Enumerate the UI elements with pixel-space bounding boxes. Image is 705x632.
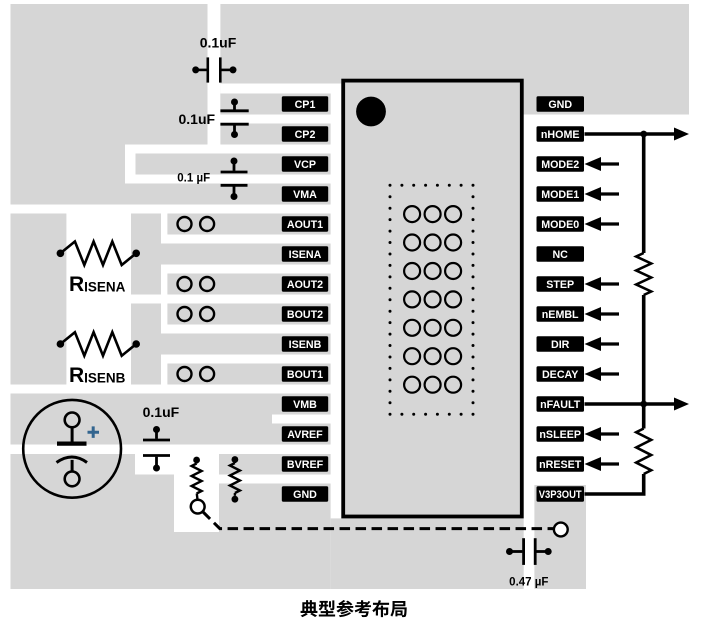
copper trace row VMA <box>11 184 331 205</box>
copper trace row GND-left and below <box>219 484 331 590</box>
copper trace row BVREF <box>219 454 331 475</box>
via pair on AOUT1 trace <box>178 217 215 231</box>
resistor R_ISENA <box>57 242 140 266</box>
pin label box CP2 (left) <box>282 126 328 142</box>
svg-text:MODE1: MODE1 <box>541 189 579 201</box>
pin label box AOUT2 (left) <box>282 276 328 292</box>
copper column ISENA net <box>131 214 161 295</box>
arrow into nSLEEP <box>585 427 620 441</box>
svg-text:0.47 µF: 0.47 µF <box>509 577 548 589</box>
svg-text:MODE2: MODE2 <box>541 159 579 171</box>
copper column ISENB net <box>131 304 161 385</box>
copper pour top-left block <box>11 4 208 145</box>
svg-text:nEMBL: nEMBL <box>542 309 579 321</box>
copper trace row VCP <box>136 154 331 175</box>
pin label box MODE0 (right) <box>537 216 585 232</box>
resistor R_ISENB <box>57 332 140 356</box>
svg-text:NC: NC <box>552 249 568 261</box>
pin label box nEMBL (right) <box>537 306 585 322</box>
svg-text:nSLEEP: nSLEEP <box>539 429 581 441</box>
pull resistor R4 <box>230 460 240 496</box>
svg-text:GND: GND <box>548 99 572 111</box>
copper pour left below channel <box>11 145 126 205</box>
via pair on BOUT2 trace <box>178 307 215 321</box>
capacitor C3 0.1uF (VCP/VMA) <box>221 158 248 201</box>
svg-text:BOUT2: BOUT2 <box>287 309 323 321</box>
arrow into MODE2 <box>585 157 620 171</box>
pin label box V3P3OUT (right) <box>537 486 585 502</box>
bus wire vertical (right) <box>585 134 644 494</box>
voltage source VM <box>23 400 121 498</box>
svg-text:DIR: DIR <box>551 339 570 351</box>
pin label box STEP (right) <box>537 276 585 292</box>
capacitor C2 0.1uF (CP1/CP2) <box>220 99 248 139</box>
copper pour under switch <box>174 532 219 589</box>
pin label box CP1 (left) <box>282 96 328 112</box>
svg-text:0.1uF: 0.1uF <box>179 111 216 127</box>
svg-text:0.1uF: 0.1uF <box>200 35 237 51</box>
svg-text:VMB: VMB <box>293 399 317 411</box>
pin label box ISENA (left) <box>282 246 328 262</box>
copper trace row AOUT2 <box>167 274 330 295</box>
svg-text:BVREF: BVREF <box>287 459 324 471</box>
via pair on AOUT2 trace <box>178 277 215 291</box>
svg-text:0.1uF: 0.1uF <box>143 404 180 420</box>
copper trace row ISENA <box>131 244 331 265</box>
pull resistor R3 (AVREF/BVREF) <box>192 460 202 500</box>
pin label box MODE2 (right) <box>537 156 585 172</box>
svg-text:STEP: STEP <box>546 279 574 291</box>
copper trace row AVREF <box>272 424 331 445</box>
arrow into DIR <box>585 337 620 351</box>
pin label box AVREF (left) <box>282 426 328 442</box>
copper pour mid-left block <box>11 214 67 385</box>
pin label box GND (right) <box>537 96 585 112</box>
svg-text:ISENA: ISENA <box>289 249 322 261</box>
white clearance around C4 bottom plate <box>135 454 174 475</box>
pin label box GND (left) <box>282 486 328 502</box>
copper pour top-right block <box>220 4 689 115</box>
caption: typical reference layout (CJK) <box>301 600 407 617</box>
svg-text:ISENB: ISENB <box>289 339 322 351</box>
copper trace row BOUT1 <box>167 364 330 385</box>
via at dashed wire end <box>554 523 568 537</box>
pin label box nFAULT (right) <box>537 396 585 412</box>
svg-text:nRESET: nRESET <box>539 459 582 471</box>
pin label box NC (right) <box>537 246 585 262</box>
svg-text:AVREF: AVREF <box>287 429 323 441</box>
arrow into nEMBL <box>585 307 620 321</box>
arrow into STEP <box>585 277 620 291</box>
capacitor C5 0.47uF <box>506 538 552 565</box>
pin label box ISENB (left) <box>282 336 328 352</box>
svg-text:AOUT2: AOUT2 <box>287 279 323 291</box>
svg-text:MODE0: MODE0 <box>541 219 579 231</box>
svg-text:nHOME: nHOME <box>541 129 580 141</box>
plus sign of source <box>88 426 100 438</box>
svg-text:VCP: VCP <box>294 159 316 171</box>
arrow into nRESET <box>585 457 620 471</box>
copper trace row VMB <box>272 394 331 415</box>
pin label box nHOME (right) <box>537 126 585 142</box>
pin label box VMA (left) <box>282 186 328 202</box>
copper trace row CP1 <box>220 94 330 115</box>
junction node at nHOME/bus <box>640 131 647 138</box>
capacitor C4 0.1uF (bottom-left) <box>143 426 170 472</box>
arrow into MODE0 <box>585 217 620 231</box>
copper trace row BOUT2 <box>167 304 330 325</box>
copper pour 0.47uF patch <box>534 485 586 589</box>
pin label box BOUT2 (left) <box>282 306 328 322</box>
copper pour bottom band <box>331 518 524 589</box>
arrow into DECAY <box>585 367 620 381</box>
via pair on BOUT1 trace <box>178 367 215 381</box>
svg-text:GND: GND <box>293 489 317 501</box>
pin label box VCP (left) <box>282 156 328 172</box>
copper trace row AOUT1 <box>167 214 330 235</box>
svg-text:BOUT1: BOUT1 <box>287 369 323 381</box>
svg-text:0.1 µF: 0.1 µF <box>177 173 210 185</box>
svg-text:CP1: CP1 <box>295 99 316 111</box>
junction node at nFAULT/bus <box>640 401 647 408</box>
pin label box nRESET (right) <box>537 456 585 472</box>
copper trace row ISENB <box>131 334 331 355</box>
pin label box MODE1 (right) <box>537 186 585 202</box>
IC pin-1 marker dot <box>356 97 386 127</box>
copper pour bottom-left block <box>11 454 175 589</box>
thermal pad dotted outline <box>389 184 475 416</box>
pin label box VMB (left) <box>282 396 328 412</box>
pin label box DECAY (right) <box>537 366 585 382</box>
wire nFAULT output <box>585 402 677 406</box>
switch S1 contact <box>191 500 205 514</box>
svg-text:DECAY: DECAY <box>542 369 578 381</box>
svg-text:VMA: VMA <box>293 189 317 201</box>
arrow right on nHOME <box>674 128 689 141</box>
arrow into MODE1 <box>585 187 620 201</box>
copper pour VMB/AVREF block <box>11 394 273 445</box>
pin label box DIR (right) <box>537 336 585 352</box>
wire nHOME output <box>585 132 677 136</box>
pin label box BOUT1 (left) <box>282 366 328 382</box>
IC U1 package outline <box>343 81 522 517</box>
svg-text:V3P3OUT: V3P3OUT <box>539 489 582 501</box>
dashed wire from switch to via <box>203 512 554 529</box>
svg-text:CP2: CP2 <box>295 129 316 141</box>
thermal pad via array <box>404 206 461 393</box>
svg-text:nFAULT: nFAULT <box>540 399 581 411</box>
pin label box nSLEEP (right) <box>537 426 585 442</box>
resistor R1 (bus upper) <box>636 253 651 295</box>
svg-text:AOUT1: AOUT1 <box>287 219 323 231</box>
resistor R2 (bus lower) <box>636 429 651 475</box>
pin label box BVREF (left) <box>282 456 328 472</box>
pin label box AOUT1 (left) <box>282 216 328 232</box>
copper trace row CP2 <box>220 124 330 145</box>
capacitor C1 0.1uF (top) <box>192 57 236 82</box>
arrow right on nFAULT <box>674 398 689 411</box>
